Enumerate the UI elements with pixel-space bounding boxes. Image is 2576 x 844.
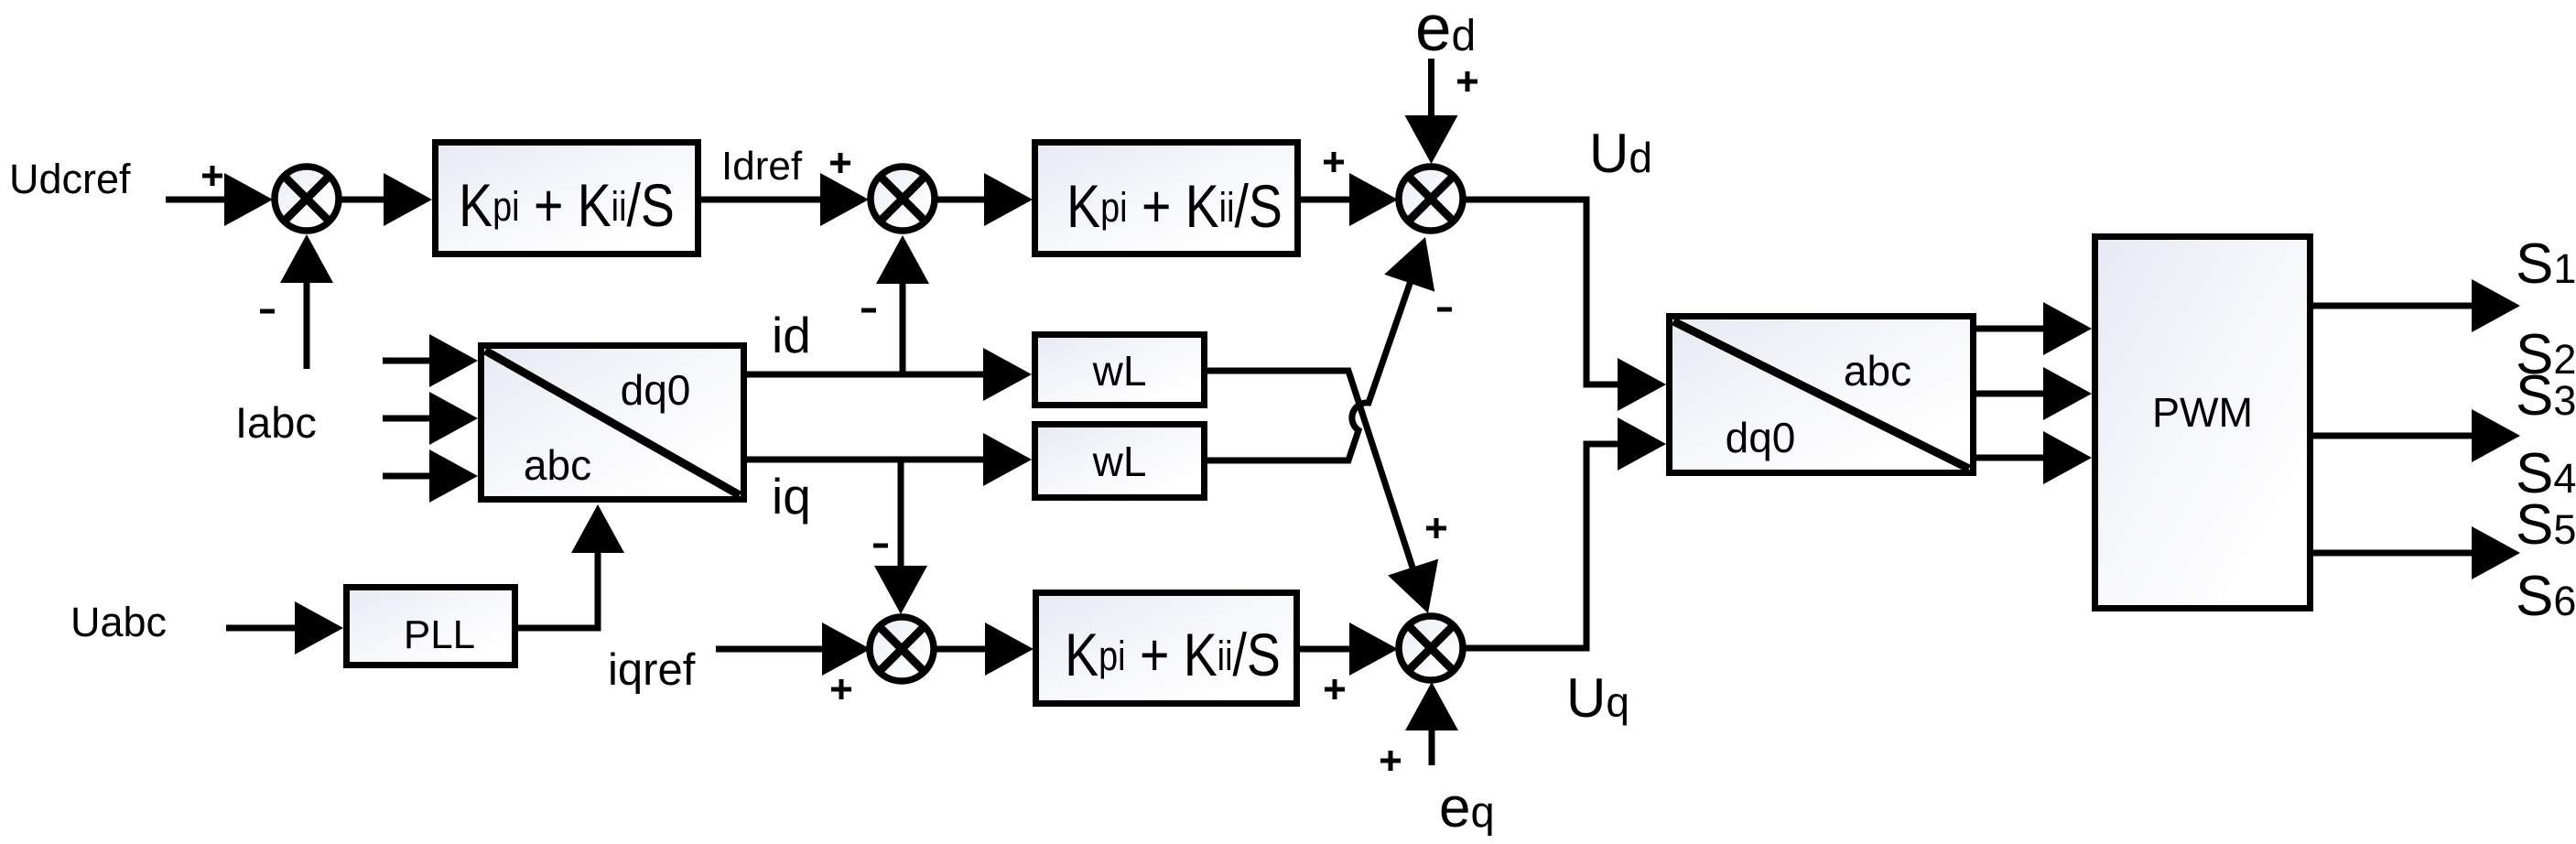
svg-text:Udcref: Udcref: [9, 156, 131, 202]
svg-text:id: id: [772, 307, 811, 363]
svg-text:wL: wL: [1092, 438, 1147, 485]
svg-text:abc: abc: [524, 441, 591, 489]
svg-text:iq: iq: [772, 468, 811, 525]
svg-text:Idref: Idref: [721, 144, 803, 189]
svg-text:abc: abc: [1844, 347, 1911, 395]
svg-text:PLL: PLL: [404, 612, 475, 657]
svg-text:dq0: dq0: [621, 366, 691, 414]
svg-text:dq0: dq0: [1726, 414, 1796, 461]
svg-text:Kpi + Kii/S: Kpi + Kii/S: [1065, 621, 1281, 688]
svg-text:Kpi + Kii/S: Kpi + Kii/S: [459, 171, 675, 239]
svg-text:PWM: PWM: [2152, 389, 2253, 436]
svg-text:iqref: iqref: [608, 645, 696, 695]
svg-text:wL: wL: [1092, 347, 1147, 395]
svg-text:Kpi + Kii/S: Kpi + Kii/S: [1066, 172, 1283, 240]
svg-text:Uabc: Uabc: [70, 599, 167, 645]
svg-text:Iabc: Iabc: [235, 398, 317, 447]
